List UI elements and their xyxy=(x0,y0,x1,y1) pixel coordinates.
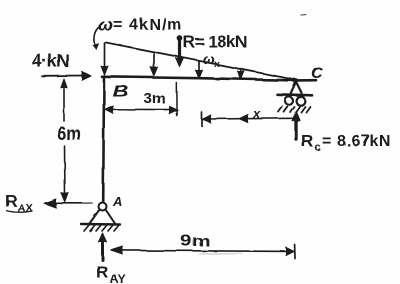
roller support C wheel 1 xyxy=(285,96,293,104)
dimension 3m line xyxy=(105,106,178,114)
svg-text:AY: AY xyxy=(110,272,126,284)
label R = 18kN xyxy=(183,33,247,52)
force 4kN arrow xyxy=(42,72,91,80)
reaction RC arrow xyxy=(292,112,300,140)
svg-text:kN: kN xyxy=(370,133,391,150)
svg-text:3m: 3m xyxy=(144,90,166,107)
pin support A circle xyxy=(99,203,107,211)
leader arrow from omega label xyxy=(93,28,99,50)
flourish under RAX xyxy=(6,211,33,213)
label RAY xyxy=(96,263,126,284)
column AB xyxy=(102,77,105,203)
dimension x left tick xyxy=(201,112,203,126)
resultant R arrow xyxy=(176,36,184,67)
svg-text:x: x xyxy=(252,106,261,121)
label omega = 4kN/m xyxy=(98,15,183,35)
dimension x line xyxy=(203,115,294,124)
svg-text:R= 18kN: R= 18kN xyxy=(183,33,247,52)
svg-text:4·kN: 4·kN xyxy=(32,51,69,71)
label RAX xyxy=(5,192,33,215)
load arrow w1 xyxy=(101,43,108,75)
svg-text:A: A xyxy=(112,194,122,209)
svg-text:x: x xyxy=(214,59,220,70)
dimension 6m line lower segment xyxy=(62,146,69,202)
svg-text:= 4kN/m: = 4kN/m xyxy=(113,17,183,34)
dimension 6m line upper segment xyxy=(61,79,67,121)
beam BC xyxy=(102,77,316,81)
dimension 9m line xyxy=(111,247,294,256)
svg-text:c: c xyxy=(315,142,321,154)
ground hatching at A xyxy=(84,225,119,231)
roller support C triangle xyxy=(291,82,302,93)
label RC = 8.67 kN xyxy=(301,132,391,154)
svg-text:9m: 9m xyxy=(181,231,211,249)
dimension 9m right tick xyxy=(294,245,296,259)
stray mark top right xyxy=(301,13,307,16)
svg-text:R: R xyxy=(5,192,17,211)
joint blob at C xyxy=(292,78,299,82)
svg-text:B: B xyxy=(113,83,129,101)
load arrow w3 xyxy=(196,61,203,79)
reaction RAY arrow xyxy=(99,233,107,260)
ground line at A xyxy=(81,223,120,226)
load arrow w2 xyxy=(151,52,158,76)
svg-text:R: R xyxy=(96,263,108,282)
dimension 3m right tick xyxy=(175,83,177,116)
svg-text:R: R xyxy=(301,132,313,151)
label omega x xyxy=(203,51,220,70)
svg-text:6m: 6m xyxy=(57,123,81,144)
svg-text:= 8.67: = 8.67 xyxy=(322,133,371,150)
roller support C wheel 2 xyxy=(296,96,305,105)
reaction RAX arrow xyxy=(44,199,92,208)
roller support C plate xyxy=(277,94,312,95)
load line (triangular load top edge) xyxy=(106,43,295,80)
faint smudge under 9m line xyxy=(200,253,242,256)
ground hatching at C xyxy=(278,106,310,112)
svg-text:ω: ω xyxy=(98,15,113,35)
svg-text:C: C xyxy=(311,65,323,82)
load arrow w4 xyxy=(238,69,245,80)
pin support A triangle xyxy=(90,210,116,224)
